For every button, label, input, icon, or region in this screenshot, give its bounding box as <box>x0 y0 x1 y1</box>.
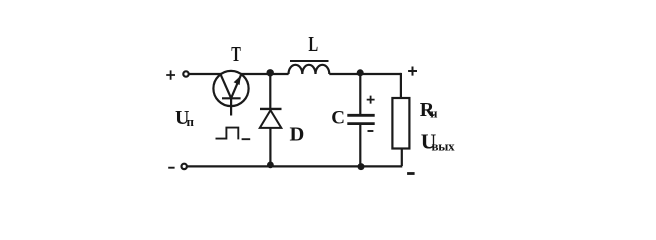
wire load bottom to rail <box>401 149 403 167</box>
diode D cathode bar <box>260 108 282 110</box>
wire top rail: inductor to output corner <box>329 73 401 75</box>
wire diode branch upper <box>269 74 271 109</box>
diode D triangle <box>260 110 282 128</box>
label + (input plus) <box>166 70 175 79</box>
capacitor polarity + <box>367 96 375 104</box>
capacitor C top plate <box>347 114 374 117</box>
transistor T base bar <box>222 97 241 99</box>
capacitor polarity - <box>368 130 374 132</box>
label + (output plus) <box>408 67 417 76</box>
node junction dot (diode top) <box>267 69 274 76</box>
wire diode branch lower <box>269 128 271 166</box>
svg-text:Uвых: Uвых <box>421 129 455 153</box>
transistor T arrowhead <box>234 76 241 85</box>
wire top rail: input terminal to transistor <box>189 73 221 75</box>
transistor T (circle body) <box>213 71 248 106</box>
svg-text:C: C <box>331 108 345 129</box>
capacitor C bottom plate <box>347 122 374 125</box>
control pulse symbol (square wave) <box>216 128 251 140</box>
input terminal - (open circle) <box>182 164 187 169</box>
wire top rail: transistor to diode node <box>241 73 289 75</box>
svg-text:T: T <box>231 42 241 66</box>
label - (input minus) <box>168 167 174 169</box>
svg-text:Rн: Rн <box>420 99 438 121</box>
resistor Rн (load rectangle) <box>392 98 409 149</box>
wire capacitor branch upper <box>359 74 361 114</box>
transistor T emitter line (left diagonal) <box>221 74 232 98</box>
transistor T base lead <box>230 98 232 115</box>
node junction dot (diode bottom) <box>267 162 274 169</box>
svg-text:Uп: Uп <box>175 107 195 129</box>
node junction dot (capacitor top) <box>357 69 364 76</box>
inductor L winding (3 arcs) <box>289 65 330 74</box>
label - (output minus) <box>407 172 415 175</box>
input terminal + (open circle) <box>183 71 188 76</box>
inductor L core bar <box>290 60 329 62</box>
wire bottom rail <box>187 165 402 167</box>
wire output corner down to load <box>400 73 402 98</box>
svg-text:D: D <box>290 123 305 145</box>
transistor T collector line with arrow (right diagonal) <box>231 75 241 98</box>
node junction dot (capacitor bottom) <box>358 163 365 170</box>
wire capacitor branch lower <box>359 125 361 166</box>
svg-text:L: L <box>308 32 318 56</box>
